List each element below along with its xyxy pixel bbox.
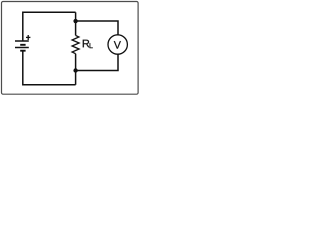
voltmeter letter V	[114, 41, 121, 48]
resistor R_L	[72, 35, 79, 53]
voltmeter V (meter body)	[108, 35, 127, 54]
wire battery top to resistor branch (top-left loop)	[23, 12, 76, 41]
node junction dot top	[73, 19, 77, 23]
plus polarity label	[26, 35, 30, 40]
wire voltmeter bottom to junction	[76, 54, 118, 70]
wire bottom to battery (bottom-left loop)	[23, 51, 76, 85]
resistor label R	[83, 40, 90, 48]
wire junction to voltmeter top	[76, 21, 118, 35]
wire resistor branch lower vertical	[75, 54, 77, 85]
battery B1	[15, 41, 29, 51]
resistor label subscript L	[90, 43, 93, 48]
wire resistor branch upper vertical	[75, 12, 77, 35]
node junction dot bottom	[73, 68, 77, 72]
